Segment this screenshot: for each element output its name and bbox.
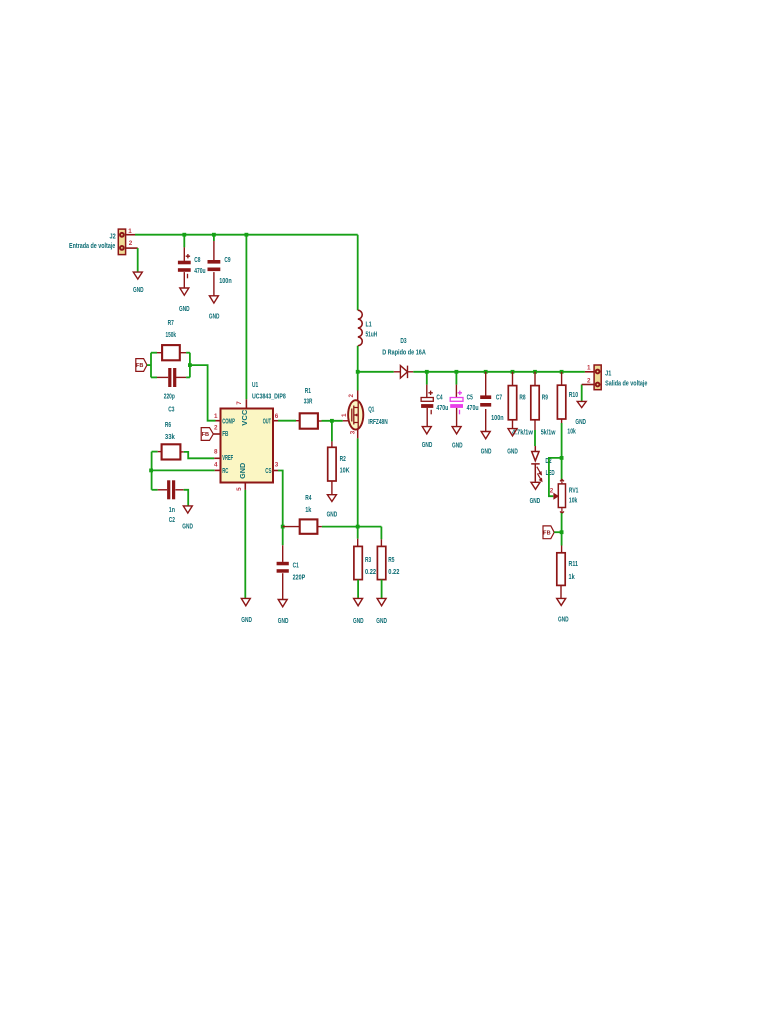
pin U1 FB stub bbox=[213, 433, 220, 435]
svg-text:GND: GND bbox=[376, 618, 387, 625]
svg-text:GND: GND bbox=[179, 306, 190, 313]
wire C9 tap bbox=[213, 235, 215, 241]
svg-text:C1: C1 bbox=[293, 562, 299, 569]
resistor R8 4.7k/1w bbox=[508, 386, 533, 437]
ground (C4) bbox=[422, 427, 433, 449]
pin Q1 gate lead bbox=[343, 420, 348, 422]
svg-text:R4: R4 bbox=[305, 495, 311, 502]
pin C2 left lead bbox=[158, 489, 167, 491]
svg-text:R11: R11 bbox=[569, 561, 579, 568]
pin R4 left lead bbox=[283, 526, 300, 528]
resistor R6 33k bbox=[162, 422, 181, 460]
svg-text:J1: J1 bbox=[605, 370, 611, 377]
svg-text:U1: U1 bbox=[252, 382, 258, 389]
wire sense rail bbox=[322, 526, 382, 528]
resistor R5 0.22 bbox=[377, 546, 399, 579]
pin R9 top lead bbox=[534, 372, 536, 386]
wire R6 left rail bbox=[151, 452, 153, 490]
svg-text:D3: D3 bbox=[400, 338, 406, 345]
svg-text:0.22: 0.22 bbox=[388, 569, 399, 576]
junction divider mid bbox=[188, 363, 192, 367]
wire R9 to LED bbox=[534, 430, 536, 446]
svg-text:C2: C2 bbox=[169, 517, 175, 524]
resistor R10 10k bbox=[557, 385, 578, 435]
svg-text:CS: CS bbox=[265, 468, 271, 475]
junction CS / R4 bbox=[281, 525, 285, 529]
pin J2-2 stub bbox=[126, 247, 138, 249]
capacitor C8 470u bbox=[178, 254, 206, 278]
svg-text:L1: L1 bbox=[366, 322, 372, 329]
svg-text:1: 1 bbox=[587, 364, 591, 371]
resistor R2 10K bbox=[328, 447, 350, 481]
wire R3 to ground bbox=[357, 580, 359, 599]
svg-text:IRFZ48N: IRFZ48N bbox=[368, 419, 388, 426]
wire wiper loop bbox=[549, 458, 562, 496]
svg-text:GND: GND bbox=[182, 524, 193, 531]
svg-text:6: 6 bbox=[275, 413, 279, 420]
svg-text:GND: GND bbox=[530, 498, 541, 505]
pin R11 top lead bbox=[561, 546, 563, 553]
pin Q1 source stub bbox=[357, 429, 359, 439]
pin C5 bottom lead bbox=[456, 408, 458, 427]
svg-text:C4: C4 bbox=[436, 394, 442, 401]
wire R7/C3 left rail bbox=[150, 353, 152, 378]
wire C5 tap bbox=[455, 372, 457, 385]
pin R1 left lead bbox=[296, 420, 300, 422]
svg-text:1: 1 bbox=[341, 413, 348, 417]
capacitor C2 1n bbox=[167, 480, 175, 524]
svg-text:51uH: 51uH bbox=[366, 332, 378, 339]
net label FB (U1 pin2) bbox=[201, 428, 213, 441]
svg-text:GND: GND bbox=[327, 512, 338, 519]
svg-text:3: 3 bbox=[275, 462, 279, 469]
svg-text:FB: FB bbox=[202, 432, 209, 438]
svg-text:33R: 33R bbox=[304, 399, 313, 406]
pin C9 bottom lead bbox=[213, 272, 215, 296]
svg-text:D Rapido de 16A: D Rapido de 16A bbox=[382, 349, 426, 356]
svg-text:GND: GND bbox=[422, 442, 433, 449]
ground (C8) bbox=[179, 288, 190, 313]
svg-text:J2: J2 bbox=[110, 233, 116, 240]
svg-text:FB: FB bbox=[136, 363, 143, 369]
wire node to D3 bbox=[358, 371, 394, 373]
svg-text:GND: GND bbox=[353, 618, 364, 625]
resistor R4 1k bbox=[300, 495, 318, 534]
wire left rail to C2 bbox=[152, 489, 158, 491]
ground (C2) bbox=[182, 506, 193, 531]
junction source / R3 bbox=[356, 525, 360, 529]
connector J1 (Salida de voltaje) bbox=[587, 364, 647, 389]
svg-text:GND: GND bbox=[209, 314, 220, 321]
wire node to drain bbox=[357, 372, 359, 391]
junction R10 tap bbox=[560, 370, 564, 374]
svg-text:7: 7 bbox=[236, 401, 243, 405]
pin C3 left lead bbox=[157, 376, 168, 378]
pin C9 top lead bbox=[213, 241, 215, 260]
svg-text:VCC: VCC bbox=[242, 410, 249, 426]
svg-text:1n: 1n bbox=[169, 507, 175, 514]
pin U1 OUT stub bbox=[273, 420, 278, 422]
junction VCC tap bbox=[245, 233, 249, 237]
pin R7 right lead bbox=[180, 352, 186, 354]
svg-text:Salida de voltaje: Salida de voltaje bbox=[605, 381, 647, 388]
svg-text:R8: R8 bbox=[519, 394, 525, 401]
svg-text:0.22: 0.22 bbox=[365, 569, 376, 576]
svg-text:GND: GND bbox=[133, 287, 144, 294]
svg-text:R1: R1 bbox=[305, 388, 311, 395]
svg-text:UC3843_DIP8: UC3843_DIP8 bbox=[252, 394, 286, 401]
svg-text:GND: GND bbox=[507, 449, 518, 456]
pin R5 top lead bbox=[380, 539, 382, 546]
svg-text:R5: R5 bbox=[388, 557, 394, 564]
junction C8 tap bbox=[182, 233, 186, 237]
pin C1 top lead bbox=[282, 545, 284, 562]
pin R6 right lead bbox=[180, 451, 183, 453]
pin R8 top lead bbox=[512, 372, 514, 386]
ground (C9) bbox=[209, 296, 220, 321]
ground (R5) bbox=[376, 598, 387, 625]
resistor R9 5k/1w bbox=[531, 386, 556, 437]
wire RC net bbox=[151, 469, 215, 471]
resistor R11 1k bbox=[557, 553, 578, 586]
svg-text:C9: C9 bbox=[224, 257, 230, 264]
pin C7 top lead bbox=[485, 372, 487, 396]
wire J2-2 to ground bbox=[137, 248, 139, 272]
wire R7/C3 right rail bbox=[189, 353, 191, 378]
svg-text:5k/1w: 5k/1w bbox=[541, 429, 556, 436]
wire FB flag stub bbox=[554, 531, 561, 533]
capacitor C3 220p bbox=[164, 368, 177, 414]
svg-text:OUT: OUT bbox=[263, 418, 272, 425]
svg-text:GND: GND bbox=[558, 617, 569, 624]
ground (C5) bbox=[452, 427, 463, 450]
capacitor C9 100n bbox=[208, 257, 232, 285]
svg-text:RC: RC bbox=[222, 468, 228, 475]
net label FB (left) bbox=[136, 359, 147, 372]
pin R10 top lead bbox=[561, 372, 563, 385]
capacitor C1 220P bbox=[277, 562, 306, 582]
junction C5 tap bbox=[455, 370, 459, 374]
svg-text:10k: 10k bbox=[569, 497, 577, 504]
pin R1 right lead bbox=[318, 420, 322, 422]
resistor R1 33R bbox=[300, 388, 318, 429]
svg-text:470u: 470u bbox=[436, 405, 448, 412]
svg-text:R3: R3 bbox=[365, 557, 371, 564]
capacitor C5 470u bbox=[450, 391, 478, 415]
svg-text:C7: C7 bbox=[496, 394, 502, 401]
connector J2 (Entrada de voltaje) bbox=[69, 228, 133, 254]
ground (U1) bbox=[241, 598, 252, 624]
svg-text:2: 2 bbox=[129, 240, 133, 247]
wire to R5 bbox=[380, 527, 382, 540]
pin U1 RC stub bbox=[215, 469, 221, 471]
pin R4 right lead bbox=[317, 526, 322, 528]
junction C9 tap bbox=[212, 233, 216, 237]
svg-text:2: 2 bbox=[550, 488, 554, 495]
svg-text:R9: R9 bbox=[542, 394, 548, 401]
ground (R8) bbox=[507, 429, 518, 456]
svg-text:100n: 100n bbox=[219, 278, 232, 285]
junction RV1 top/wiper bbox=[560, 456, 564, 460]
svg-text:RV1: RV1 bbox=[569, 488, 579, 495]
wire RV1 top net bbox=[561, 458, 563, 480]
wire R6 to VREF bbox=[184, 452, 215, 458]
wire R5 to ground bbox=[381, 580, 383, 599]
pin J2-1 stub bbox=[126, 234, 135, 236]
resistor R3 0.22 bbox=[354, 546, 376, 579]
pin R10 bottom lead bbox=[561, 419, 563, 423]
pin Q1 drain stub bbox=[357, 391, 359, 402]
svg-text:Entrada de voltaje: Entrada de voltaje bbox=[69, 243, 115, 250]
resistor R7 150k bbox=[162, 320, 180, 360]
svg-text:470u: 470u bbox=[194, 268, 205, 275]
svg-text:C8: C8 bbox=[194, 257, 200, 264]
svg-text:10K: 10K bbox=[340, 468, 350, 475]
net label FB (RV1) bbox=[543, 526, 554, 539]
svg-text:2: 2 bbox=[348, 394, 355, 398]
pin C5 top lead bbox=[455, 385, 457, 398]
ground (J1) bbox=[575, 401, 586, 426]
potentiometer RV1 10k bbox=[550, 479, 579, 513]
svg-text:GND: GND bbox=[481, 449, 492, 456]
wire R10 to RV1 bbox=[561, 423, 563, 458]
capacitor C4 470u bbox=[421, 391, 448, 415]
wire C8 tap bbox=[183, 235, 185, 248]
wire L1 to node bbox=[357, 346, 359, 372]
pin C3 right lead bbox=[175, 376, 186, 378]
ground (LED) bbox=[530, 482, 541, 505]
pin R2 bottom lead bbox=[331, 481, 333, 495]
wire source to sense bbox=[357, 438, 359, 526]
svg-text:C5: C5 bbox=[467, 394, 473, 401]
pin R8 bottom lead bbox=[512, 420, 514, 429]
svg-text:GND: GND bbox=[452, 443, 463, 450]
svg-text:10k: 10k bbox=[567, 428, 575, 435]
pin C4 bottom lead bbox=[426, 408, 428, 427]
wire to R6 left bbox=[152, 451, 158, 453]
pin U1 COMP stub bbox=[216, 420, 221, 422]
wire OUT to R1 bbox=[278, 420, 296, 422]
junction FB tap bbox=[560, 530, 564, 534]
svg-text:R7: R7 bbox=[168, 320, 174, 327]
svg-text:2: 2 bbox=[587, 377, 591, 384]
svg-text:GND: GND bbox=[278, 618, 289, 625]
svg-text:220p: 220p bbox=[164, 394, 175, 401]
wire VIN to U1 VCC bbox=[245, 235, 247, 400]
pin C8 top lead bbox=[183, 247, 185, 261]
wire to C3 left bbox=[151, 376, 157, 378]
junction C4 tap bbox=[425, 370, 429, 374]
ground (R3) bbox=[353, 598, 364, 625]
wire C3 right bbox=[186, 376, 190, 378]
junction RC / left rail bbox=[149, 469, 153, 473]
junction R8 tap bbox=[511, 370, 515, 374]
svg-text:150k: 150k bbox=[166, 332, 177, 339]
svg-text:5: 5 bbox=[236, 487, 243, 491]
svg-text:1: 1 bbox=[214, 413, 218, 420]
svg-text:2: 2 bbox=[214, 425, 218, 432]
junction R9 tap bbox=[533, 370, 537, 374]
ground (J2) bbox=[133, 272, 144, 294]
ground (C7) bbox=[481, 432, 492, 456]
pin C7 bottom lead bbox=[485, 409, 487, 431]
pin U1 VCC stub bbox=[245, 399, 247, 408]
pin C1 bottom lead bbox=[282, 573, 284, 599]
svg-text:LED: LED bbox=[546, 470, 555, 477]
svg-text:4: 4 bbox=[214, 462, 218, 469]
svg-text:GND: GND bbox=[241, 617, 252, 624]
junction switch node bbox=[356, 370, 360, 374]
wire J1-2 to ground bbox=[581, 385, 583, 402]
wire RV1 to R11 bbox=[561, 513, 563, 546]
pin C8 bottom lead bbox=[183, 272, 185, 287]
LED D2 bbox=[531, 446, 554, 482]
pin U1 VREF stub bbox=[214, 457, 220, 459]
pin R11 bottom lead bbox=[560, 585, 562, 598]
pin U1 CS stub bbox=[273, 470, 278, 472]
svg-text:COMP: COMP bbox=[222, 418, 235, 425]
wire R1 to gate bbox=[322, 420, 343, 422]
wire to R3 bbox=[357, 527, 359, 539]
svg-text:100n: 100n bbox=[491, 415, 504, 422]
svg-text:33k: 33k bbox=[165, 434, 175, 441]
svg-text:470u: 470u bbox=[467, 405, 479, 412]
pin C2 right lead bbox=[175, 489, 183, 491]
pin R3 top lead bbox=[357, 539, 359, 547]
svg-text:8: 8 bbox=[214, 448, 218, 455]
ground (C1) bbox=[278, 600, 289, 626]
diode D3 (D Rapido de 16A) bbox=[382, 338, 426, 378]
svg-text:1k: 1k bbox=[305, 507, 311, 514]
junction C7 tap bbox=[484, 370, 488, 374]
ground (R11) bbox=[557, 598, 569, 623]
pin R6 left lead bbox=[158, 451, 162, 453]
svg-text:GND: GND bbox=[575, 419, 586, 426]
svg-text:R2: R2 bbox=[340, 456, 346, 463]
pin C4 top lead bbox=[426, 385, 428, 398]
wire FB flag to divider bbox=[147, 364, 151, 366]
wire gate to R2 bbox=[331, 421, 333, 442]
capacitor C7 100n bbox=[480, 394, 503, 422]
wire U1 GND to ground bbox=[244, 490, 246, 598]
pin J1-2 stub bbox=[582, 384, 594, 386]
wire to R7 left bbox=[151, 352, 157, 354]
svg-text:3: 3 bbox=[350, 430, 357, 434]
svg-text:R6: R6 bbox=[165, 422, 171, 429]
wire output rail bbox=[413, 371, 585, 373]
svg-text:220P: 220P bbox=[293, 575, 306, 582]
svg-text:FB: FB bbox=[222, 431, 228, 438]
svg-text:FB: FB bbox=[543, 530, 550, 536]
wire VIN to L1 bbox=[357, 235, 359, 311]
svg-text:GND: GND bbox=[240, 463, 247, 479]
wire R7 right bbox=[186, 352, 190, 354]
wire CS net bbox=[278, 471, 283, 546]
transistor Q1 IRFZ48N bbox=[341, 394, 388, 435]
svg-text:VREF: VREF bbox=[222, 455, 233, 462]
wire divider to COMP bbox=[190, 365, 216, 421]
pin R9 bottom lead bbox=[534, 420, 536, 430]
svg-text:Q1: Q1 bbox=[368, 407, 374, 414]
wire VIN top rail bbox=[135, 234, 358, 236]
svg-text:R10: R10 bbox=[569, 392, 578, 399]
pin R7 left lead bbox=[157, 352, 162, 354]
junction gate / R2 bbox=[330, 419, 334, 423]
wire C4 tap bbox=[426, 372, 428, 385]
pin J1-1 stub bbox=[585, 371, 594, 373]
pin U1 GND stub bbox=[244, 483, 246, 490]
wire C2 to ground bbox=[184, 490, 189, 506]
ground (R2) bbox=[327, 495, 338, 519]
IC U1 UC3843_DIP8 bbox=[214, 382, 286, 491]
pin R2 top lead bbox=[331, 441, 333, 447]
svg-text:1k: 1k bbox=[569, 574, 575, 581]
inductor L1 51uH bbox=[358, 310, 377, 346]
svg-text:C3: C3 bbox=[168, 407, 174, 414]
